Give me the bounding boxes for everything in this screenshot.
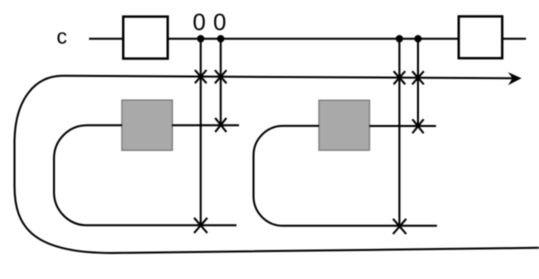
arrowhead on feedback line [508,72,522,85]
wire: feedback loop (arrow line + outer return loop) [15,76,539,253]
wire: vertical tap V2 [220,39,222,126]
junction dot J4 [414,35,421,42]
junction dot J3 [396,35,403,42]
wire: input stub from c to delay box D1 [89,38,123,40]
label 0 (over node J1) [194,14,205,31]
node c (input label) [57,32,66,44]
cross X1 (V1 x feedback line) [195,70,207,83]
junction dot J1 [197,35,204,42]
wire: vertical tap V1 [200,39,202,226]
cross X4 (V4 x feedback line) [412,71,424,84]
cross X6 (V4 end on M2 line) [412,119,423,133]
delay box D2 [459,16,503,58]
cross X7 (V1 end on stage-1 bottom wire) [194,218,207,233]
wire: top line from D1 to D2 [168,38,458,40]
multiplier box M1 (gray) [122,100,172,150]
wire: loop into M1 (left C-loop of stage 1) [54,125,237,225]
delay box D1 [123,17,168,59]
cross X3 (V3 x feedback line) [394,71,406,84]
wire: loop into M2 (left C-loop of stage 2) [254,126,438,226]
wire: vertical tap V4 [417,39,419,127]
cross X2 (V2 x feedback line) [215,70,227,83]
wire: top line output stub right of D2 [502,38,526,40]
junction dot J2 [217,35,224,42]
label 0 (over node J2) [214,14,225,31]
wire: stub right of M2 [369,125,436,127]
multiplier box M2 (gray) [319,100,370,150]
wire: vertical tap V3 [398,39,400,226]
cross X5 (V2 end on M1 line) [215,118,226,132]
cross X8 (V3 end on stage-2 bottom wire) [393,219,406,234]
wire: stub right of M1 [172,124,239,126]
